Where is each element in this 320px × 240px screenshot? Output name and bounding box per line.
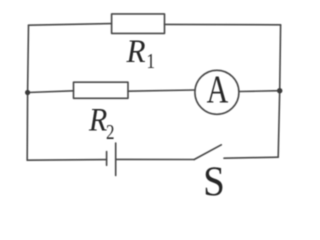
wire left vertical (top corner to left node) xyxy=(27,25,30,92)
wire middle (left node to R2) xyxy=(28,91,74,93)
battery cell negative plate (short) xyxy=(106,152,108,166)
label S xyxy=(203,158,225,205)
wire left vertical (left node to bottom corner) xyxy=(26,93,28,161)
switch S right contact and wire to bottom-right corner xyxy=(224,157,278,158)
label R1 xyxy=(126,32,155,73)
svg-text:A: A xyxy=(207,67,229,111)
label R2 xyxy=(88,101,114,145)
node right junction xyxy=(277,88,282,93)
resistor R2 xyxy=(74,82,129,98)
wire top-right segment (R1 to right corner) xyxy=(165,23,281,25)
resistor R1 xyxy=(112,14,165,34)
svg-text:2: 2 xyxy=(106,121,115,144)
wire bottom (battery to switch) xyxy=(116,158,195,160)
wire middle (R2 to ammeter) xyxy=(128,90,194,91)
svg-text:R: R xyxy=(126,32,146,69)
wire top-left segment (left corner to R1) xyxy=(29,24,112,26)
switch S blade xyxy=(194,145,221,160)
ammeter letter A xyxy=(207,67,229,111)
wire middle (ammeter to right node) xyxy=(239,90,279,93)
svg-text:1: 1 xyxy=(147,50,156,73)
wire bottom (left corner to battery) xyxy=(27,159,106,162)
wire right vertical (top corner to right node) xyxy=(279,25,282,91)
node left junction xyxy=(25,90,30,95)
ammeter A xyxy=(195,70,239,114)
wire right vertical (right node to bottom corner) xyxy=(278,91,280,158)
wire (scan artifact streak, left edge) xyxy=(0,60,3,200)
svg-text:S: S xyxy=(203,158,225,205)
battery cell positive plate (long) xyxy=(115,143,117,176)
svg-text:R: R xyxy=(88,101,107,138)
